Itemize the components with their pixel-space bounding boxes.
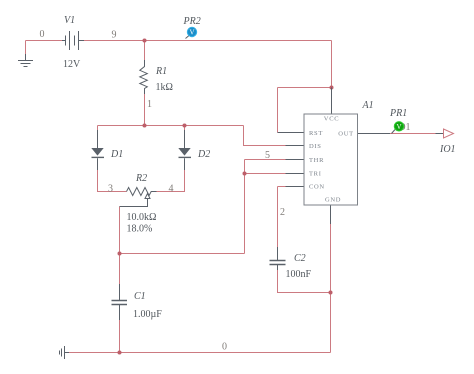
svg-text:1kΩ: 1kΩ <box>156 82 173 93</box>
svg-text:IO1: IO1 <box>439 144 456 155</box>
svg-text:1: 1 <box>147 99 152 110</box>
svg-text:TRI: TRI <box>309 171 322 178</box>
svg-text:OUT: OUT <box>338 131 353 138</box>
svg-text:C2: C2 <box>294 253 306 264</box>
svg-text:12V: 12V <box>63 59 81 70</box>
svg-text:A1: A1 <box>362 100 374 111</box>
svg-text:2: 2 <box>280 207 285 218</box>
svg-text:4: 4 <box>169 184 174 195</box>
svg-text:9: 9 <box>112 30 117 41</box>
svg-text:THR: THR <box>309 157 324 164</box>
svg-text:GND: GND <box>325 197 341 204</box>
svg-text:PR1: PR1 <box>389 108 407 119</box>
svg-text:10.0kΩ: 10.0kΩ <box>127 212 157 223</box>
svg-text:V: V <box>189 29 194 37</box>
svg-text:D1: D1 <box>110 149 123 160</box>
svg-text:3: 3 <box>108 184 113 195</box>
svg-text:VCC: VCC <box>324 116 339 123</box>
svg-text:RST: RST <box>309 130 323 137</box>
svg-text:C1: C1 <box>134 291 146 302</box>
svg-text:5: 5 <box>265 150 270 161</box>
svg-text:DIS: DIS <box>309 143 322 150</box>
svg-text:R2: R2 <box>135 173 147 184</box>
svg-text:CON: CON <box>309 184 325 191</box>
svg-text:18.0%: 18.0% <box>127 224 153 235</box>
svg-text:V1: V1 <box>64 15 75 26</box>
svg-text:100nF: 100nF <box>286 269 312 280</box>
svg-text:V: V <box>396 123 401 131</box>
svg-text:PR2: PR2 <box>183 16 201 27</box>
svg-text:0: 0 <box>222 342 227 353</box>
svg-text:R1: R1 <box>155 66 167 77</box>
svg-text:0: 0 <box>40 29 45 40</box>
svg-text:D2: D2 <box>197 149 210 160</box>
svg-text:1.00µF: 1.00µF <box>133 309 162 320</box>
